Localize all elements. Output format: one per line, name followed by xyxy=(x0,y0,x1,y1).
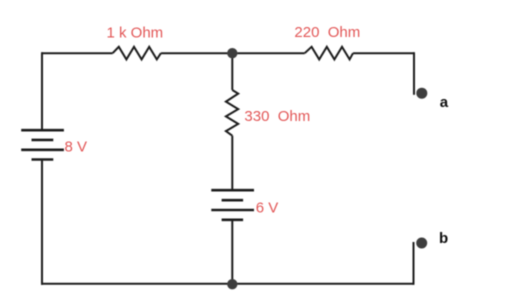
svg-text:6 V: 6 V xyxy=(256,200,279,217)
wire right drop to terminal a xyxy=(413,52,415,95)
battery V2 6 V plates xyxy=(211,190,254,220)
wire top-middle horizontal xyxy=(161,52,305,54)
resistor R1 1 k Ohm xyxy=(113,47,161,60)
resistor R3 330 Ohm xyxy=(226,90,238,136)
resistor R2 220 Ohm xyxy=(305,47,353,60)
svg-text:8 V: 8 V xyxy=(65,139,88,156)
svg-text:b: b xyxy=(439,230,448,247)
terminal a (dot) xyxy=(416,88,427,99)
wire bottom horizontal xyxy=(41,283,414,285)
battery V1 8 V plates xyxy=(21,130,64,159)
svg-text:1 k Ohm: 1 k Ohm xyxy=(107,25,164,42)
wire middle vertical upper xyxy=(231,53,233,90)
wire top-left horizontal xyxy=(42,52,113,54)
svg-text:a: a xyxy=(440,94,449,111)
svg-text:330 Ohm: 330 Ohm xyxy=(244,108,310,125)
node junction top (dot) xyxy=(227,48,237,58)
wire left vertical lower xyxy=(41,160,43,285)
wire middle vertical between R3 and battery xyxy=(231,136,233,191)
svg-text:220 Ohm: 220 Ohm xyxy=(294,24,360,41)
terminal b (dot) xyxy=(416,238,427,249)
wire middle vertical lower xyxy=(231,220,233,285)
wire top-right horizontal xyxy=(353,52,414,54)
wire right rise to terminal b xyxy=(413,242,415,285)
wire left vertical upper xyxy=(41,52,43,130)
node junction bottom (dot) xyxy=(227,279,237,289)
